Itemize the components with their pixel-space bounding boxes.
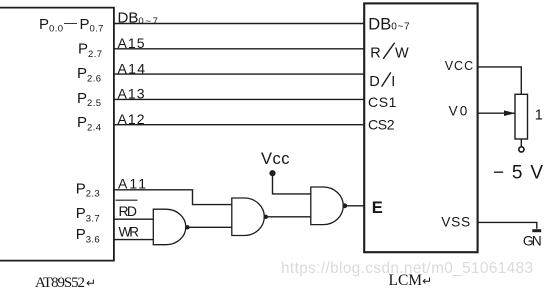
svg-text:P2.7: P2.7	[78, 41, 102, 60]
svg-text:P2.5: P2.5	[77, 90, 101, 109]
svg-text:RD: RD	[119, 203, 138, 219]
svg-text:P3.6: P3.6	[76, 226, 100, 245]
svg-text:P2.3: P2.3	[76, 180, 100, 199]
svg-text:−5V: −5V	[493, 163, 543, 184]
svg-text:P0.0—P0.7: P0.0—P0.7	[39, 15, 104, 35]
svg-text:VSS: VSS	[441, 215, 470, 230]
svg-text:VCC: VCC	[445, 59, 473, 73]
svg-text:P2.4: P2.4	[77, 114, 101, 133]
svg-text:A14: A14	[118, 60, 146, 76]
svg-text:A12: A12	[118, 111, 145, 127]
svg-text:D: D	[369, 74, 379, 90]
svg-text:A15: A15	[118, 35, 145, 51]
svg-text:A11: A11	[118, 176, 146, 192]
svg-text:WR: WR	[119, 224, 140, 239]
svg-text:LCM↵: LCM↵	[389, 272, 433, 288]
svg-text:I: I	[391, 74, 395, 90]
svg-text:CS2: CS2	[368, 117, 395, 133]
svg-text:↵: ↵	[86, 276, 96, 288]
svg-text:R: R	[370, 46, 380, 62]
svg-text:Vcc: Vcc	[261, 150, 290, 168]
svg-text:V0: V0	[449, 104, 468, 119]
svg-text:A13: A13	[118, 86, 145, 102]
svg-text:E: E	[372, 199, 383, 217]
svg-text:DB0~7: DB0~7	[368, 15, 410, 33]
svg-text:1: 1	[535, 108, 543, 124]
svg-text:CS1: CS1	[368, 94, 397, 110]
svg-text:P2.6: P2.6	[77, 65, 101, 84]
svg-text:W: W	[395, 46, 409, 62]
svg-text:GN: GN	[523, 234, 542, 249]
svg-text:P3.7: P3.7	[76, 205, 100, 224]
svg-text:DB0~7: DB0~7	[118, 10, 160, 27]
svg-text:AT89S52: AT89S52	[35, 275, 85, 288]
